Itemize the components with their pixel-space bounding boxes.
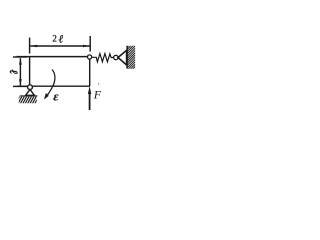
force F arrow line [89,92,91,110]
svg-text:ℓ: ℓ [59,33,64,45]
spring right end circle [114,55,118,59]
dimension 2l: right arrowhead [83,45,90,48]
spring [92,54,114,62]
pin support ground line [20,95,38,97]
frame bottom edge [17,85,90,87]
dimension 2l: left arrowhead [30,45,37,48]
dimension 2l: line [30,45,89,47]
wall support triangle [118,50,127,65]
wall hatching [127,39,135,77]
hinge circle top-right [88,55,92,59]
pin support circle [28,85,33,90]
dimension l: top extension tick [13,56,27,58]
frame right edge [89,59,91,87]
frame top edge [17,56,89,58]
frame left edge [29,56,31,84]
epsilon arc arrowhead [44,93,49,100]
dimension 2l: left extension line [29,38,31,54]
dimension l: top arrowhead [19,58,22,64]
force F arrowhead [88,86,91,94]
wall line [126,46,128,69]
svg-text:ε: ε [53,89,59,104]
dimension l: bottom arrowhead [19,79,22,85]
angular acceleration epsilon arc [47,70,55,96]
svg-text:ℓ: ℓ [7,69,19,74]
pin support triangle [26,89,35,95]
dimension l: vertical line [19,58,21,85]
svg-text:2: 2 [52,34,57,44]
dimension l: bottom extension tick [13,85,27,87]
dimension 2l: right extension line [89,36,91,52]
pin support ground hatching [16,96,39,103]
